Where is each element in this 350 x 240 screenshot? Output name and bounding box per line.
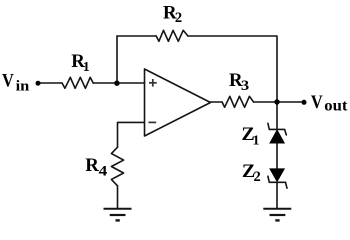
- wire op-amp - input: [118, 122, 145, 147]
- wire top left to R2: [117, 35, 156, 37]
- resistor R2: [156, 30, 188, 41]
- terminal dot Vin: [36, 81, 41, 86]
- svg-text:2: 2: [175, 10, 182, 26]
- wire Z1 to Z2: [276, 143, 278, 170]
- zener diode Z1: [268, 123, 286, 143]
- svg-text:1: 1: [253, 134, 260, 149]
- svg-text:R: R: [85, 155, 99, 176]
- resistor R4: [111, 147, 123, 186]
- svg-text:V: V: [2, 71, 14, 92]
- wire R4 to ground: [117, 186, 119, 208]
- resistor R1: [62, 77, 93, 88]
- wire R2 to output node: [188, 36, 277, 102]
- zener diode Z2: [268, 169, 287, 188]
- resistor R3: [222, 96, 254, 107]
- svg-text:in: in: [16, 79, 30, 95]
- junction output node: [274, 99, 279, 104]
- terminal dot Vout: [302, 100, 307, 105]
- wire R3 to Vout: [254, 101, 302, 103]
- svg-text:2: 2: [254, 169, 261, 185]
- op-amp U1: [145, 69, 211, 136]
- wire op-amp output to R3: [211, 101, 223, 103]
- wire R1 to op-amp + input: [93, 82, 144, 84]
- wire node A up to feedback: [116, 36, 118, 83]
- svg-text:3: 3: [241, 78, 249, 94]
- wire Z2 to ground: [276, 182, 278, 208]
- wire Vin to R1: [38, 82, 62, 84]
- op-amp + input symbol: [149, 79, 157, 87]
- ground (below R4): [104, 209, 132, 221]
- svg-text:1: 1: [83, 60, 90, 75]
- svg-text:4: 4: [99, 164, 108, 180]
- svg-text:V: V: [311, 92, 323, 113]
- ground (below Z2): [263, 209, 291, 221]
- svg-text:out: out: [324, 98, 348, 115]
- wire output node down to Z1: [276, 102, 278, 129]
- junction node A: [114, 81, 119, 86]
- op-amp - input symbol: [148, 121, 156, 123]
